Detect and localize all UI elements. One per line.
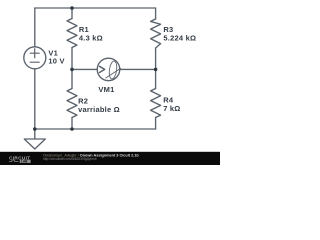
wire right upper (top rail corner to R3) (155, 8, 157, 19)
ground symbol (24, 139, 45, 149)
wire VM1 right (120, 68, 156, 70)
wire VM1 left (72, 68, 97, 70)
CircuitLab logo LAB box (20, 160, 31, 163)
wire R1 bottom to R2 top (71, 48, 73, 89)
svg-text:LAB: LAB (21, 160, 28, 164)
svg-text:VM1: VM1 (98, 85, 114, 94)
CircuitLab logo waveform (9, 160, 19, 161)
resistor R1 (67, 19, 77, 48)
svg-text:4.3 kΩ: 4.3 kΩ (79, 33, 103, 42)
svg-text:http://circuitlab.com/c6626393: http://circuitlab.com/c6626393g8ybmb (43, 157, 97, 161)
VM1 meter face ellipse (108, 61, 118, 80)
wire top rail (35, 7, 156, 9)
resistor R3 (151, 19, 161, 48)
junction node ground (33, 127, 37, 131)
VM1 plus chevron (100, 66, 105, 72)
V1 minus sign (30, 61, 39, 63)
resistor R2 (67, 89, 77, 118)
svg-text:5.224 kΩ: 5.224 kΩ (163, 34, 196, 43)
wire R3 bottom to R4 top (155, 48, 157, 89)
junction node right mid (VM1 right) (154, 68, 158, 72)
junction node R1 top (70, 6, 74, 10)
svg-text:varriable Ω: varriable Ω (78, 105, 120, 114)
svg-text:R3: R3 (163, 25, 173, 34)
svg-text:10 V: 10 V (48, 56, 64, 65)
resistor R4 (151, 89, 161, 118)
V1 plus sign (30, 49, 39, 58)
voltage source V1 body (24, 47, 46, 69)
wire R4 bottom lead (155, 118, 157, 130)
VM1 meter needle (106, 68, 121, 78)
wire R2 bottom lead (71, 118, 73, 130)
junction node R2 bottom (70, 127, 74, 131)
wire left lower (V1 bottom to ground node) (34, 69, 36, 139)
wire left upper (top rail to V1 top) (34, 8, 36, 47)
footer watermark bar (0, 152, 220, 165)
junction node left mid (VM1 left) (70, 68, 74, 72)
wire R1 branch top lead (71, 8, 73, 19)
wire bottom rail (35, 128, 156, 130)
svg-text:7 kΩ: 7 kΩ (163, 104, 180, 113)
voltmeter VM1 body (97, 58, 120, 81)
